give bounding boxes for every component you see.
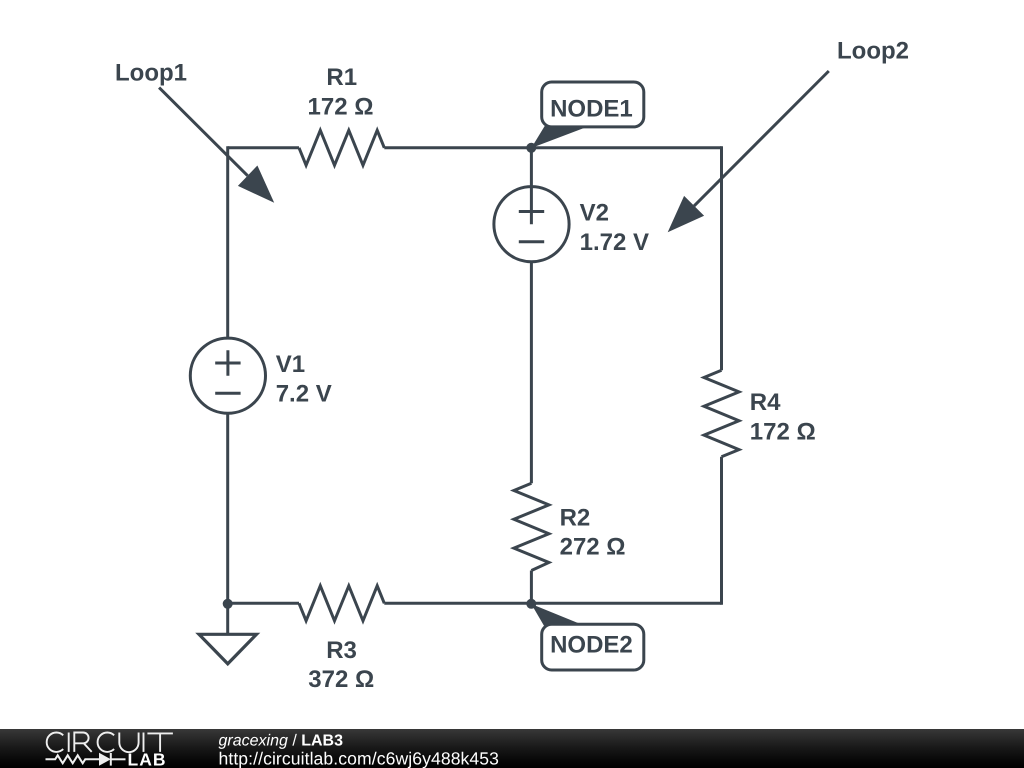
- svg-text:272 Ω: 272 Ω: [560, 534, 626, 561]
- footer bar: [0, 729, 1024, 768]
- Loop1 arrowhead: [238, 166, 274, 203]
- logo diode triangle: [99, 753, 111, 766]
- svg-text:V1: V1: [276, 351, 305, 378]
- svg-text:gracexing / LAB3: gracexing / LAB3: [219, 733, 344, 750]
- svg-text:372 Ω: 372 Ω: [308, 666, 374, 693]
- voltage source V1: [190, 338, 265, 413]
- wire mid between V2 and R2: [530, 262, 533, 484]
- wire mid below R2: [530, 571, 533, 604]
- svg-text:R2: R2: [560, 505, 591, 532]
- svg-text:NODE1: NODE1: [550, 96, 633, 123]
- wire left upper: [226, 146, 229, 338]
- svg-text:R3: R3: [326, 637, 357, 664]
- resistor R3: [299, 586, 384, 621]
- svg-text:R1: R1: [326, 64, 357, 91]
- wire mid top: [530, 148, 533, 224]
- svg-text:Loop2: Loop2: [837, 38, 909, 65]
- logo resistor-diode line: [46, 753, 126, 766]
- Loop2 arrowhead: [668, 196, 704, 232]
- resistor R2: [514, 483, 549, 570]
- node ground junction dot: [223, 599, 233, 609]
- wire top-right segment: [384, 146, 721, 149]
- svg-text:Loop1: Loop1: [115, 60, 187, 87]
- logo CIRCUIT wordmark: [47, 732, 173, 752]
- wire bottom-right segment: [384, 602, 721, 605]
- node NODE1 dot: [526, 143, 536, 153]
- svg-text:V2: V2: [580, 200, 609, 227]
- flag NODE2 box: [542, 624, 644, 670]
- voltage source V2: [494, 187, 569, 262]
- flag NODE1 box: [542, 82, 644, 127]
- resistor R1: [299, 130, 384, 165]
- svg-text:1.72 V: 1.72 V: [580, 229, 649, 256]
- flag NODE1 pointer: [531, 126, 586, 149]
- flag NODE2 pointer: [531, 604, 583, 626]
- wire top-left segment: [228, 146, 299, 149]
- svg-text:172 Ω: 172 Ω: [308, 94, 374, 121]
- Loop1 arrow wire: [159, 88, 248, 176]
- svg-text:172 Ω: 172 Ω: [750, 419, 816, 446]
- svg-text:R4: R4: [750, 389, 781, 416]
- svg-text:LAB: LAB: [128, 750, 167, 768]
- svg-text:http://circuitlab.com/c6wj6y48: http://circuitlab.com/c6wj6y488k453: [219, 749, 500, 768]
- wire right lower: [720, 457, 723, 605]
- Loop2 arrow wire: [694, 71, 829, 206]
- node NODE2 dot: [526, 599, 536, 609]
- ground: [226, 603, 229, 635]
- svg-text:7.2 V: 7.2 V: [276, 381, 332, 408]
- svg-text:NODE2: NODE2: [550, 632, 633, 659]
- resistor R4: [704, 370, 739, 457]
- wire bottom-left segment: [228, 602, 299, 605]
- wire right upper: [720, 146, 723, 370]
- wire left lower: [226, 413, 229, 603]
